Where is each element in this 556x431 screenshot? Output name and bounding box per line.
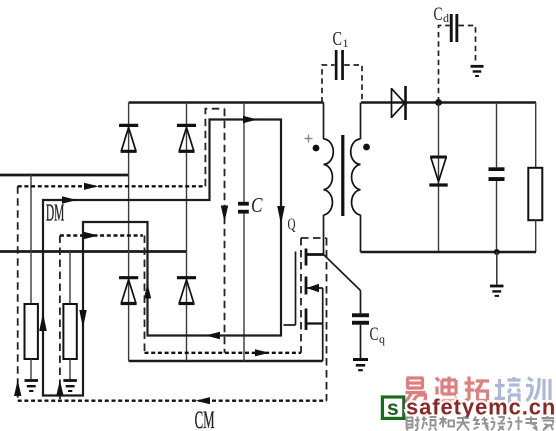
dashed vertical jog left of C bbox=[205, 109, 224, 187]
arrow on dotted live feeder (right) bbox=[84, 183, 99, 190]
transistor Q source lead down bbox=[322, 288, 324, 361]
dashed box around Q: right edge to CM line bbox=[326, 238, 328, 401]
watermark red chinese char di bbox=[434, 377, 458, 402]
svg-text:C: C bbox=[434, 4, 443, 25]
arrow on DM loop top-left (right) bbox=[62, 196, 77, 204]
transistor Q body stub with arrow bbox=[306, 287, 323, 289]
capacitor Cd plates bbox=[450, 14, 459, 42]
polarity plus sign primary bbox=[305, 135, 313, 143]
wire: bridge bottom bus to Q source bbox=[129, 360, 323, 363]
watermark blue chinese char xun bbox=[526, 378, 550, 402]
capacitor C1 (primary-secondary parasitic) dashed leads bbox=[322, 65, 362, 103]
watermark blue chinese char pei bbox=[495, 377, 521, 402]
resistor RL (load) top lead bbox=[535, 103, 537, 168]
ground symbol (output) bbox=[490, 286, 504, 296]
svg-text:1: 1 bbox=[343, 36, 349, 50]
junction dot: output ground node bbox=[494, 249, 500, 255]
resistor R2 bottom lead bbox=[69, 359, 71, 379]
svg-text:C: C bbox=[251, 193, 263, 217]
dotted CM feeder line neutral side bbox=[60, 234, 143, 236]
arrow down on dashed left of C bbox=[221, 206, 228, 223]
wire: AC live input (top left horizontal) bbox=[0, 174, 129, 177]
transistor Q drain stub bbox=[306, 253, 324, 256]
capacitor C1 plates bbox=[335, 50, 344, 80]
watermark gray chinese char she bbox=[407, 416, 555, 431]
wire: bridge rectifier right leg bbox=[186, 103, 188, 362]
transformer T1 primary winding bbox=[324, 139, 334, 215]
arrow on DM loop second leg (down) bbox=[79, 310, 86, 328]
svg-text:Q: Q bbox=[288, 215, 296, 234]
dashed box around Q: top edge bbox=[301, 237, 327, 239]
resistor R2 (LISN neutral) top lead bbox=[69, 252, 71, 305]
dotted CM mid line to Q box bbox=[145, 352, 302, 354]
capacitor Co plates bbox=[489, 167, 505, 181]
polarity dot secondary bbox=[363, 144, 370, 151]
dashed CM vertical at LISN live bbox=[17, 186, 19, 400]
resistor R2 body bbox=[63, 304, 76, 359]
polarity dot primary bbox=[313, 145, 320, 152]
resistor RL bottom lead bbox=[535, 220, 537, 252]
wire: transformer secondary top lead bbox=[360, 103, 362, 140]
svg-text:s: s bbox=[387, 397, 399, 420]
ground symbol (R1) bbox=[25, 381, 39, 392]
ground symbol (Cd earth) bbox=[471, 66, 484, 76]
wire: DM solid loop bbox=[43, 120, 281, 396]
diode D3 (bridge lower-left) bbox=[119, 278, 138, 304]
arrow up on neutral LISN dashed bbox=[56, 380, 63, 396]
arrow on CM earth return (left) bbox=[196, 397, 211, 404]
wire: AC neutral input (lower left horizontal) bbox=[0, 250, 187, 253]
arrow on DM loop left leg (up) bbox=[39, 313, 47, 331]
watermark red chinese char tuo bbox=[465, 377, 490, 401]
ground symbol (R2) bbox=[63, 381, 77, 392]
wire: transformer primary top lead bbox=[323, 103, 325, 140]
capacitor Cd dashed lead right bbox=[459, 26, 476, 64]
transformer T1 secondary winding bbox=[351, 139, 361, 215]
dashed vertical bridge mid bbox=[144, 236, 146, 353]
wire: output ground stem bbox=[496, 252, 498, 286]
resistor R1 bottom lead bbox=[30, 359, 32, 379]
capacitor C (bulk cap) branch wire upper bbox=[243, 103, 245, 202]
transformer T1 core bar bbox=[341, 135, 344, 216]
capacitor Co (output cap) branch bbox=[496, 103, 498, 168]
capacitor Cd dashed lead left and label bbox=[439, 26, 450, 103]
dashed vertical left of C down bbox=[224, 109, 226, 353]
resistor R1 body bbox=[25, 304, 38, 359]
resistor RL body bbox=[528, 168, 542, 220]
svg-text:C: C bbox=[370, 324, 379, 345]
arrow on dotted neutral feeder (right) bbox=[84, 232, 99, 239]
svg-text:d: d bbox=[443, 11, 449, 25]
arrow on DM loop mid leg (up) bbox=[144, 284, 151, 299]
diode D1 (bridge upper-left) bbox=[119, 125, 138, 151]
arrow on DM loop right leg (down) bbox=[277, 206, 285, 225]
arrow on DM loop upper (right) bbox=[243, 116, 258, 124]
arrow up on live LISN dashed bbox=[14, 380, 21, 396]
diode D6 (vertical, output clamp) bbox=[429, 103, 447, 253]
svg-text:DM: DM bbox=[46, 201, 65, 227]
wire: drain to Cq diagonal bbox=[324, 255, 361, 291]
ground symbol (Cq earth) bbox=[353, 360, 368, 371]
junction dot: output diode cathode node bbox=[435, 99, 442, 106]
capacitor C plates bbox=[238, 202, 249, 214]
svg-text:CM: CM bbox=[195, 407, 215, 431]
transistor Q gate lead bbox=[284, 252, 296, 326]
wire: bridge rectifier left leg bbox=[128, 103, 130, 362]
transistor Q drain lead bbox=[323, 215, 325, 255]
diode D2 (bridge upper-right) bbox=[177, 125, 196, 151]
capacitor Cq upper lead bbox=[360, 291, 362, 314]
svg-text:safetyemc.cn: safetyemc.cn bbox=[406, 394, 556, 419]
watermark red chinese char yi bbox=[406, 378, 426, 404]
arrow on dotted mid line (right) bbox=[255, 349, 270, 356]
svg-text:q: q bbox=[379, 332, 385, 346]
wire: output bottom bus bbox=[361, 251, 537, 254]
diode D4 (bridge lower-right) bbox=[177, 278, 196, 304]
transistor Q channel segments bbox=[305, 249, 308, 331]
transistor Q source stub bbox=[306, 322, 323, 324]
svg-text:C: C bbox=[333, 28, 343, 50]
arrow on DM loop lower (left) bbox=[206, 332, 221, 340]
dotted CM feeder line live side bbox=[18, 185, 206, 187]
diode D5 (output rectifier) bbox=[361, 86, 536, 120]
dashed box around Q: left edge bbox=[300, 238, 302, 353]
resistor R1 (LISN live) top lead bbox=[30, 175, 32, 304]
capacitor Cq plates bbox=[352, 313, 369, 324]
watermark logo box S bbox=[382, 397, 403, 418]
dashed CM vertical at LISN neutral bbox=[59, 236, 61, 401]
wire: rectified top bus (bridge to transformer primary) bbox=[129, 101, 324, 104]
capacitor C branch wire lower bbox=[243, 214, 245, 361]
capacitor Co lower lead bbox=[496, 181, 498, 252]
capacitor Cq lower lead bbox=[360, 325, 362, 359]
wire: secondary bottom lead bbox=[360, 215, 362, 252]
dotted CM earth return line bbox=[18, 400, 327, 402]
